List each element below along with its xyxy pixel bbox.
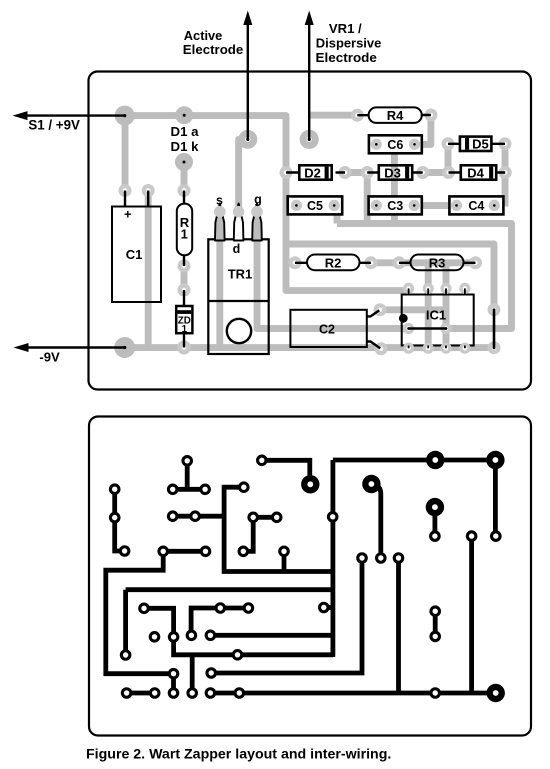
diode D2: [299, 165, 331, 179]
node active electrode pad: [238, 130, 257, 149]
node R1 top pad: [178, 184, 191, 197]
node pcb pad: [120, 649, 132, 661]
capacitor C3: [369, 196, 422, 214]
svg-text:D4: D4: [467, 165, 484, 180]
TR1 pin s: [215, 204, 225, 241]
node pcb pad: [199, 484, 211, 496]
wire link right of IC1: [493, 310, 496, 348]
resistor R1: [177, 204, 192, 256]
svg-text:C6: C6: [387, 138, 403, 152]
IC1 pin1 dot: [399, 314, 408, 323]
wire: pcb track left column: [115, 489, 125, 551]
diode D3: [379, 165, 412, 179]
node pcb pad: [466, 530, 478, 542]
board outline (bottom panel / PCB): [89, 417, 531, 736]
node pcb pad: [238, 546, 250, 558]
svg-text:C4: C4: [468, 199, 484, 213]
node pcb pad: [271, 512, 283, 524]
transistor TR1 body: [208, 239, 268, 354]
node -9V pad: [114, 337, 135, 358]
node pcb pad: [167, 484, 179, 496]
node IC1 pad top x=464.9: [459, 283, 470, 294]
svg-text:C2: C2: [319, 323, 335, 337]
node pcb pad: [168, 668, 180, 680]
node R1 bottom pad: [178, 260, 191, 273]
node ZD1 bottom pad: [177, 341, 191, 355]
diode D4: [461, 165, 496, 179]
node IC1 pad top x=408.6: [403, 283, 414, 294]
resistor R3: [411, 255, 464, 271]
node C1 + pad: [119, 184, 132, 197]
node pcb pad: [200, 546, 212, 558]
wire: pcb track dumbbell: [433, 611, 438, 636]
wire: pcb track bottom left pair: [127, 691, 155, 696]
wire: D5 left pad down to D4 left pad: [445, 144, 452, 173]
capacitor C4: [449, 196, 503, 214]
wire: R1 leads: [183, 191, 185, 267]
node big pad: [301, 475, 319, 493]
TR1 pin d: [234, 204, 244, 241]
wire: branch to wire-link top pad: [283, 244, 494, 310]
node pcb pad: [181, 455, 193, 467]
TR1 pin g: [252, 204, 262, 241]
wire: pcb track right vertical: [469, 536, 474, 693]
node pcb pad: [243, 602, 255, 614]
svg-text:R2: R2: [325, 255, 342, 270]
node D4 pads: [442, 166, 455, 179]
node pcb pad: [205, 630, 217, 642]
wire: +9V rail from S1 pad across top, down left of D2, to IC1 pin area: [125, 116, 409, 291]
node pcb pad: [327, 511, 339, 523]
svg-text:C3: C3: [387, 199, 403, 213]
svg-text:D1 k: D1 k: [171, 139, 200, 154]
node R4 pads: [351, 109, 364, 122]
node IC1 pad top x=428.2: [423, 283, 434, 294]
node pcb pad: [189, 510, 201, 522]
wire: pcb track to big pad top middle: [262, 460, 310, 484]
node wire link pads (vertical link): [488, 303, 501, 316]
svg-text:D2: D2: [304, 165, 321, 180]
node R3 pads: [393, 256, 406, 269]
node pcb pad: [232, 649, 244, 661]
node pcb pad: [149, 687, 161, 699]
svg-text:R4: R4: [387, 108, 404, 123]
wire: C2 leads (hooks): [367, 310, 380, 316]
wire link across IC1: [409, 327, 446, 330]
node pcb pad: [138, 603, 150, 615]
svg-text:-9V: -9V: [39, 351, 60, 365]
wire: pcb track vertical to bottom row: [190, 655, 195, 693]
node pcb pad: [234, 687, 246, 699]
wire: pcb track gamma + long east line: [126, 590, 333, 655]
wire: column from C6 bottom through D3 and C3: [391, 150, 398, 224]
node big pad: [487, 684, 505, 702]
node pcb pad: [375, 552, 387, 564]
capacitor C1: [112, 207, 161, 303]
node pcb pad: [186, 687, 198, 699]
node wire link pads (horizontal link): [403, 323, 414, 334]
wire: IC1 pin tick x=408.6: [408, 288, 410, 348]
node IC1 pad bottom x=428.2: [423, 343, 434, 354]
diode D5: [460, 137, 492, 151]
node pcb pad: [238, 481, 250, 493]
svg-text:IC1: IC1: [426, 308, 446, 323]
wire: pcb track west L: [191, 608, 220, 635]
wire: TR1 source pin down to -9V rail: [216, 212, 223, 348]
wire: pcb track long east line mid: [210, 633, 333, 638]
wire: R2 leads: [295, 262, 371, 264]
node IC1 pad bottom x=408.6: [403, 343, 414, 354]
node C1 - pad: [142, 184, 155, 197]
wire: S1 pad down to C1 positive pad: [122, 116, 129, 191]
wire: VR1 pad line to R4 left pad: [309, 112, 358, 119]
node TR1 d pad: [233, 206, 245, 218]
svg-text:g: g: [254, 193, 262, 207]
node D3 pads: [361, 166, 374, 179]
wire: pcb track row to corner and east: [144, 608, 333, 655]
wire: pcb track long wrap from pad via bottom of C-area: [224, 487, 333, 571]
wire: VR1/dispersive electrode arrow: [308, 24, 310, 139]
node D1 k pad: [175, 153, 193, 171]
node pcb pad: [205, 687, 217, 699]
wire: pcb track right main vertical: [330, 460, 335, 657]
svg-text:D3: D3: [384, 165, 401, 180]
node pcb pad: [109, 483, 121, 495]
wire: TR1 gate pin down and east behind C2 to wire link left pad: [257, 212, 409, 329]
wire: D5 right pad down past D4 right pad to C4 right pad: [502, 144, 509, 207]
node IC1 pad bottom x=464.9: [459, 343, 470, 354]
svg-text:Electrode: Electrode: [183, 42, 244, 57]
wire: pcb track pair: [253, 515, 277, 520]
node pcb pad: [393, 552, 405, 564]
node pcb pad: [356, 552, 368, 564]
wire: IC1 pin column 3 vertical: [443, 263, 450, 348]
wire: ZD1 leads: [183, 290, 185, 348]
node D2 pads: [280, 166, 293, 179]
wire: pcb track from big pad down: [372, 485, 381, 559]
node S1/+9V pad: [115, 106, 135, 126]
node big pad: [362, 475, 380, 493]
svg-text:s: s: [216, 194, 223, 208]
wire: IC1 pin tick x=464.9: [464, 288, 466, 348]
node IC1 pad top x=446: [440, 283, 451, 294]
capacitor C2: [290, 310, 366, 347]
node pcb pad: [121, 687, 133, 699]
wire: pcb track pair row: [163, 549, 205, 554]
svg-text:d: d: [233, 242, 241, 256]
svg-text:1: 1: [181, 227, 188, 242]
node pcb pad: [429, 687, 441, 699]
node C2 bottom pad: [375, 342, 388, 355]
wire: pcb track long bottom line: [210, 691, 495, 696]
node TR1 g pad: [251, 206, 263, 218]
wire: D3 right pad to D4 left pad: [423, 169, 449, 176]
wire: R1 bottom pad to ZD1 top pad: [181, 266, 188, 290]
wire: D2 leads: [286, 171, 345, 173]
wire: stub C5 left pad to rail: [286, 202, 296, 209]
node pcb pad: [109, 512, 121, 524]
node pcb pad: [429, 605, 441, 617]
wire: C1 negative pad down to -9V rail: [145, 191, 152, 348]
node R2 pads: [289, 256, 302, 269]
node pcb pad: [318, 602, 330, 614]
wire: pcb track pad pair vertical: [171, 674, 176, 693]
IC U1 (IC1) outline: [402, 295, 474, 346]
node big pad: [426, 498, 444, 516]
node VR1/dispersive electrode pad: [300, 130, 319, 149]
svg-text:Electrode: Electrode: [316, 50, 377, 65]
wire: pcb track pair: [220, 606, 248, 611]
wire: D2 right pad to D3 left pad: [345, 169, 367, 176]
node D1 a pad: [175, 106, 193, 124]
node C2 top pad: [374, 303, 387, 316]
wire: pcb track stub down: [282, 551, 287, 571]
wire: D3 leads: [367, 171, 423, 173]
svg-text:Dispersive: Dispersive: [316, 36, 382, 51]
node TR1 s pad: [214, 206, 226, 218]
wire: IC1 pin column 2 vertical: [425, 263, 432, 348]
wire: IC1 pin tick x=428.2: [427, 288, 429, 348]
svg-text:R3: R3: [429, 255, 446, 270]
node pcb pad: [168, 631, 180, 643]
wire: pcb track pad stub: [324, 605, 333, 610]
node big pad: [486, 451, 504, 469]
wire: stub to R2 left pad: [283, 259, 296, 266]
node pcb pad: [205, 667, 217, 679]
node pcb pad: [429, 530, 441, 542]
wire: -9V arrow: [28, 346, 125, 348]
wire: R3 leads: [399, 262, 476, 264]
node pcb pad: [490, 530, 502, 542]
wire: R2 right pad to R3 pads behind R3: [371, 259, 476, 266]
node pcb pad: [278, 546, 290, 558]
wire: active electrode pad down to TR1 drain pin: [239, 139, 248, 211]
wire: C3 right pad to C4 left pad: [414, 202, 456, 209]
wire: IC1 pin tick x=446: [445, 288, 447, 348]
wire: D5 leads: [448, 143, 505, 145]
wire: active electrode arrow: [247, 24, 249, 139]
svg-text:Figure 2. Wart Zapper layout: Figure 2. Wart Zapper layout and inter-w…: [86, 747, 391, 763]
wire: pcb track top right horizontal: [333, 458, 496, 463]
board outline (top panel): [89, 72, 532, 390]
wire: D3 left pad down to row trace: [364, 173, 371, 224]
svg-text:S1 / +9V: S1 / +9V: [28, 117, 80, 133]
node big pad: [426, 451, 444, 469]
svg-text:VR1 /: VR1 /: [329, 21, 362, 36]
svg-text:D1 a: D1 a: [171, 124, 200, 139]
svg-text:TR1: TR1: [228, 267, 253, 282]
node pcb pad: [186, 630, 198, 642]
svg-text:+: +: [124, 207, 132, 222]
svg-text:C5: C5: [307, 199, 323, 213]
node IC1 pad bottom x=446: [440, 343, 451, 354]
resistor R4: [369, 107, 422, 123]
node pcb pad: [149, 631, 161, 643]
node ZD1 top pad: [178, 284, 191, 297]
node pcb pad: [168, 687, 180, 699]
resistor R2: [307, 255, 360, 271]
node pcb pad: [157, 546, 169, 558]
wire: pcb track big staircase: [106, 551, 174, 673]
node pcb pad: [215, 602, 227, 614]
wire: S1/+9V arrow: [27, 114, 125, 116]
wire: pcb track down-left jog: [243, 517, 253, 551]
wire: pcb track right down: [493, 460, 498, 536]
wire: R4 leads: [357, 114, 431, 117]
wire: C5 right pad down, east, down right side, west to link pad: [337, 206, 512, 329]
node pcb pad: [167, 510, 179, 522]
wire: D4 leads: [449, 171, 506, 173]
wire: pcb track T at top left: [173, 461, 205, 490]
wire: D1 k pad to R1 top pad: [181, 162, 188, 191]
zener diode ZD1: [176, 306, 192, 333]
svg-text:D5: D5: [472, 137, 489, 152]
node pcb pad: [429, 631, 441, 643]
wire: -9V rail along bottom: [125, 344, 494, 351]
svg-text:C1: C1: [126, 247, 143, 262]
TR1 mounting hole: [227, 319, 251, 343]
capacitor C6: [369, 135, 422, 153]
capacitor C5: [288, 196, 343, 214]
wire: pcb track row: [173, 514, 224, 519]
wire: pcb track long vertical: [396, 558, 401, 693]
wire: C1 leads: [125, 191, 148, 207]
wire: C2 top pad east behind IC1: [380, 306, 446, 313]
node pcb pad: [256, 455, 268, 467]
wire: R4 right pad down to C6 right pad: [415, 115, 431, 144]
node D5 pads: [442, 137, 455, 150]
wire: pcb track big pad down: [432, 507, 437, 536]
node pcb pad: [247, 512, 259, 524]
wire: pcb track down then west: [211, 558, 362, 673]
node pcb pad: [119, 545, 131, 557]
